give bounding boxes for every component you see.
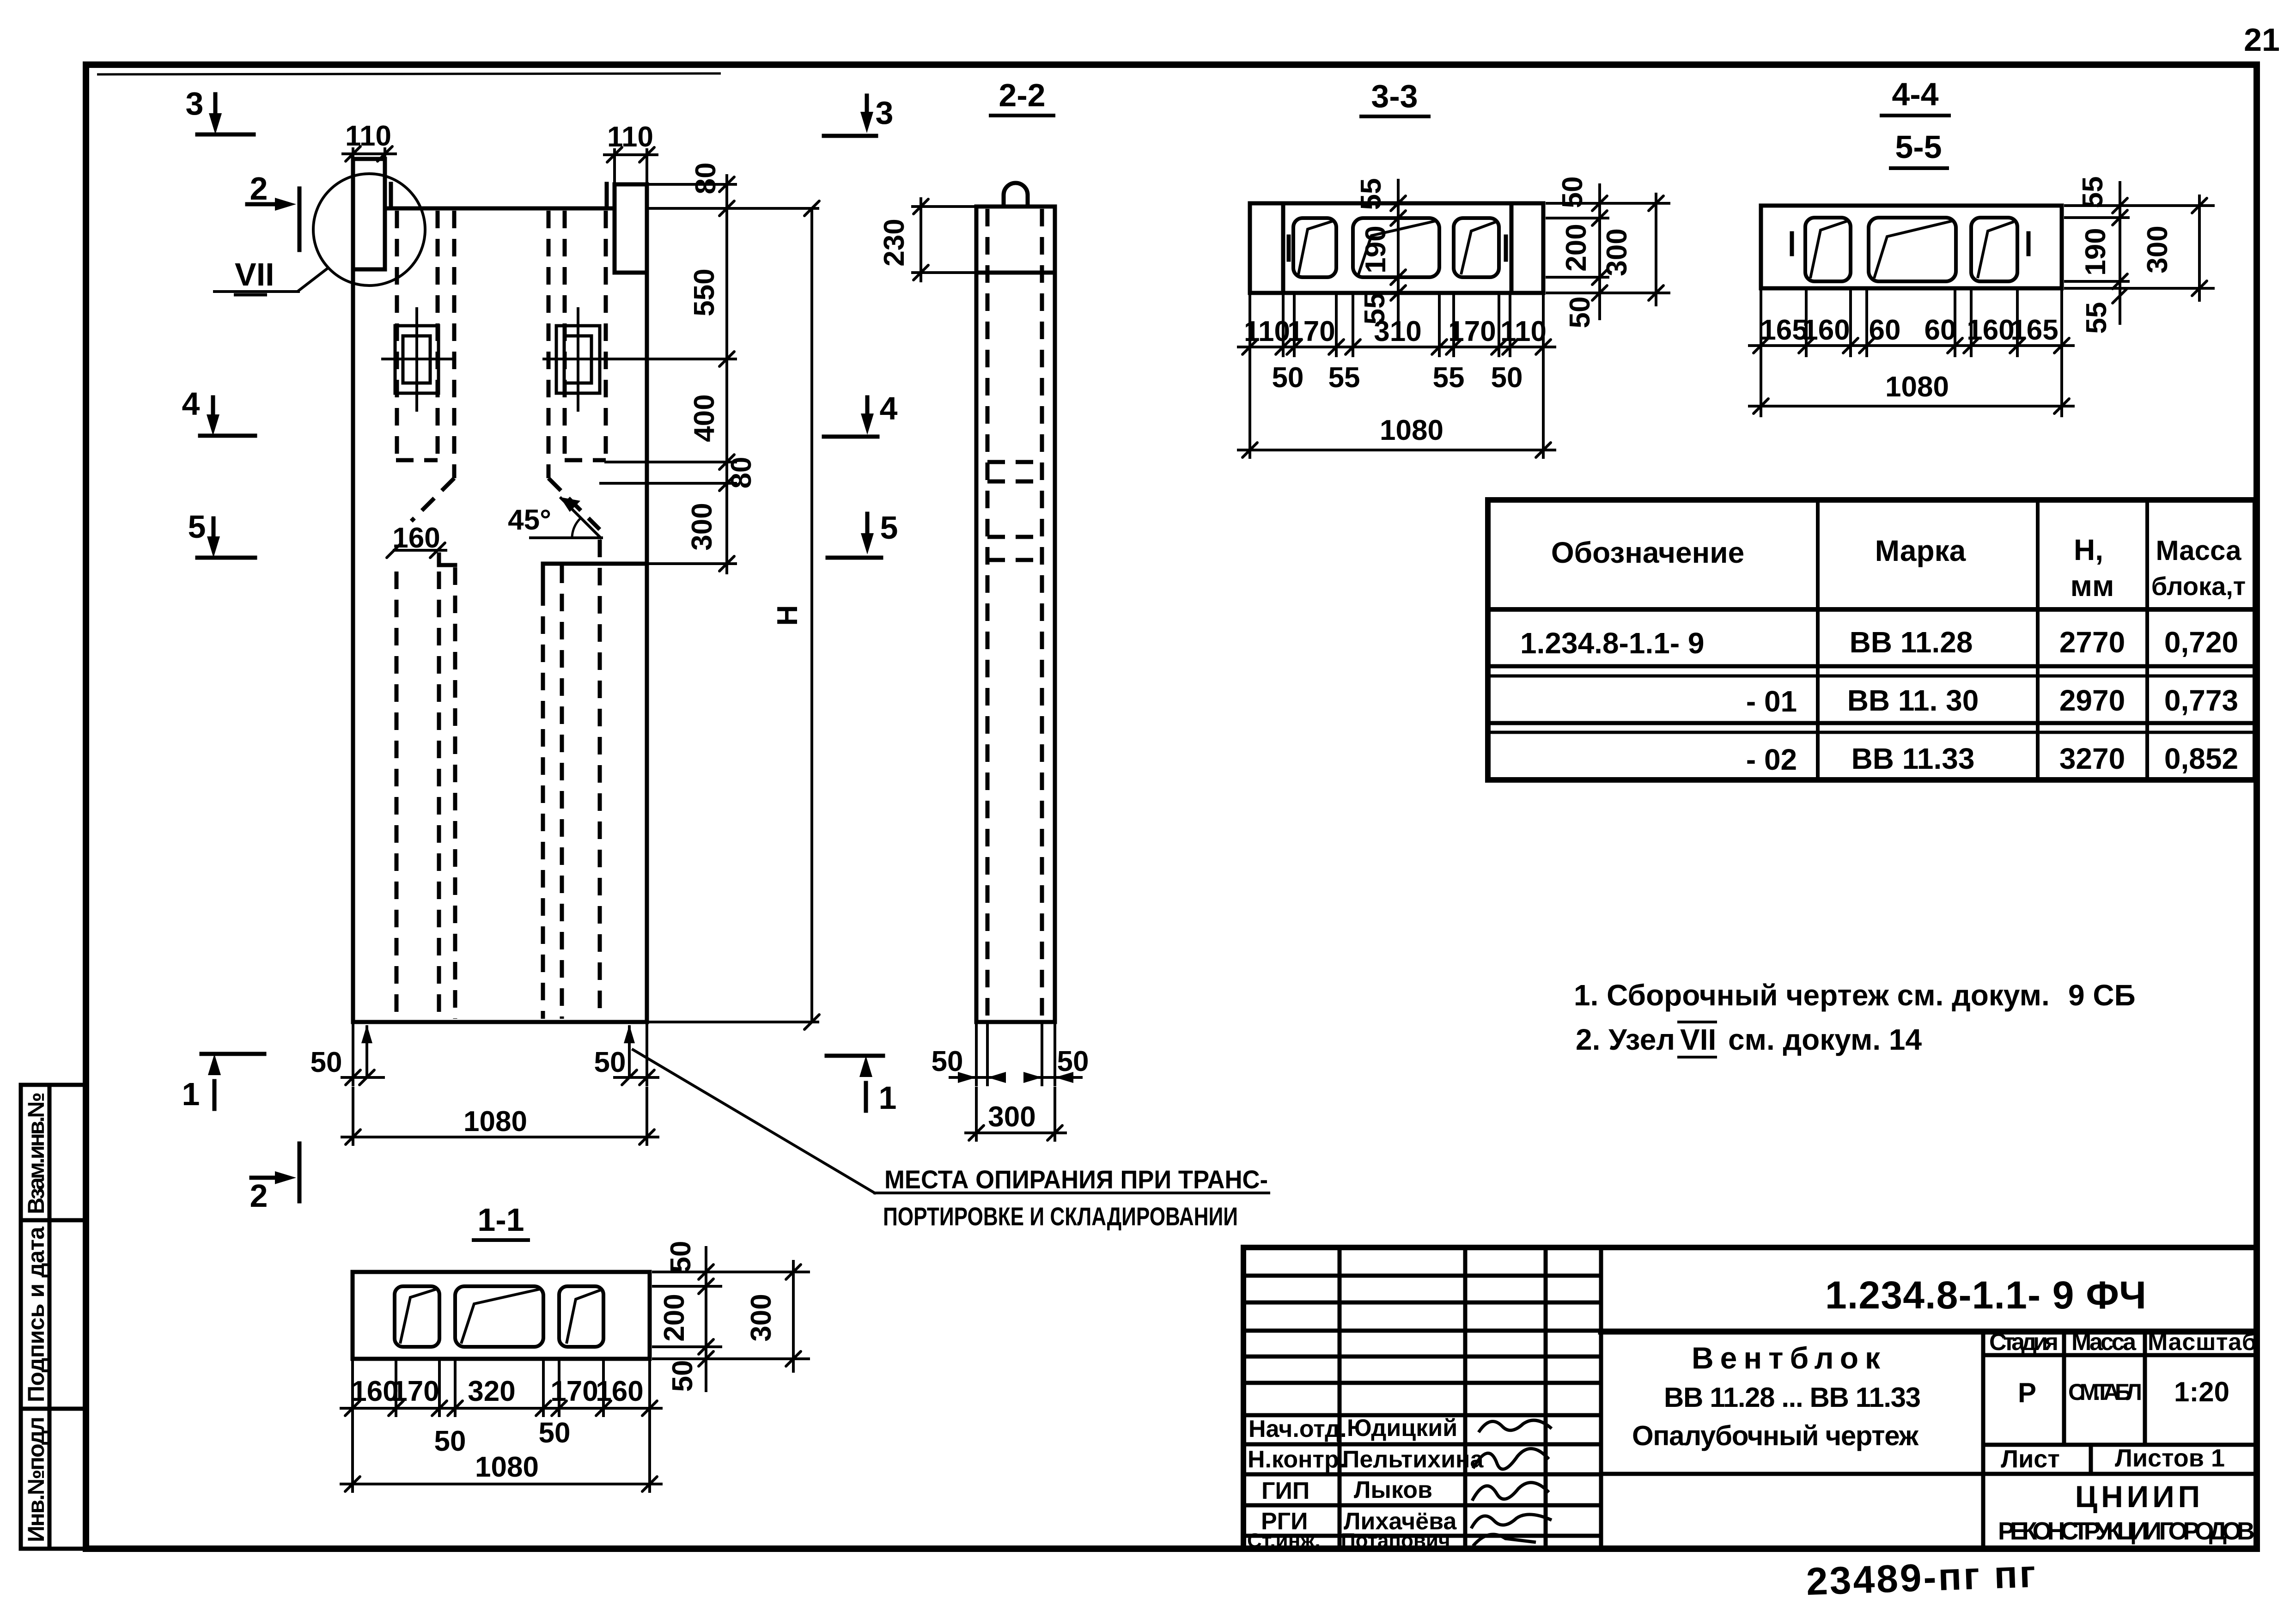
svg-text:Н.контр.: Н.контр. — [1248, 1446, 1346, 1473]
svg-text:50: 50 — [1272, 362, 1304, 394]
1-1 hole 2 — [455, 1286, 543, 1347]
svg-text:Нач.отд.: Нач.отд. — [1248, 1416, 1347, 1442]
svg-text:300: 300 — [745, 1294, 777, 1341]
hidden duct line left channel — [396, 211, 438, 460]
svg-text:300: 300 — [1601, 228, 1633, 276]
svg-text:55: 55 — [2081, 302, 2113, 334]
taper: left duct diagonal — [411, 478, 454, 521]
svg-text:80: 80 — [690, 163, 722, 195]
right taper step — [543, 564, 647, 586]
lifting loop anchor right — [544, 309, 612, 410]
note 2 — [1576, 1022, 1922, 1057]
lifting loop anchor left — [383, 309, 451, 410]
svg-text:165: 165 — [2010, 314, 2058, 346]
section marker 5 left — [188, 509, 255, 558]
hidden lines lower-left channel — [396, 572, 439, 1019]
svg-text:3: 3 — [186, 85, 204, 122]
dimension 160 taper — [387, 522, 446, 558]
svg-text:- 02: - 02 — [1746, 743, 1797, 776]
4-4 dimension 300 — [2065, 196, 2213, 300]
4-4 dimension row 165/160/60/60/160/165 — [1749, 314, 2073, 353]
svg-text:0,773: 0,773 — [2164, 684, 2238, 717]
svg-text:110: 110 — [345, 120, 391, 152]
svg-text:3270: 3270 — [2059, 742, 2125, 775]
svg-text:170: 170 — [1448, 316, 1496, 347]
hidden lines lower-right channel — [562, 540, 600, 1019]
svg-text:21: 21 — [2244, 22, 2280, 58]
svg-text:3: 3 — [876, 95, 894, 131]
svg-text:110: 110 — [607, 121, 653, 153]
row ГИП Лыков — [1261, 1477, 1549, 1504]
view label 1-1 — [472, 1202, 530, 1240]
taper: right duct diagonal — [548, 478, 600, 529]
svg-text:5: 5 — [188, 509, 206, 545]
1-1 sub labels 50/50 — [434, 1417, 571, 1457]
name cell Вентблок — [1601, 1341, 2257, 1474]
3-3 hole 2 — [1353, 218, 1439, 277]
svg-text:50: 50 — [665, 1241, 697, 1273]
svg-text:ВВ 11.33: ВВ 11.33 — [1851, 742, 1975, 775]
svg-text:1.234.8-1.1- 9 ФЧ: 1.234.8-1.1- 9 ФЧ — [1825, 1273, 2146, 1317]
svg-text:310: 310 — [1374, 316, 1421, 347]
svg-text:см. докум. 14: см. докум. 14 — [1728, 1023, 1922, 1056]
view label 5-5 — [1889, 129, 1949, 168]
section marker 3 right — [824, 95, 893, 136]
4-4 hole 1 — [1805, 218, 1851, 281]
svg-text:160: 160 — [596, 1375, 643, 1407]
svg-text:60: 60 — [1924, 314, 1956, 346]
svg-text:160: 160 — [392, 522, 440, 554]
2-2 dimension 50 left — [932, 1023, 1006, 1085]
left margin stamp boxes — [21, 1085, 86, 1549]
svg-text:Вентблок: Вентблок — [1692, 1341, 1887, 1375]
dimension 230 — [878, 199, 974, 281]
row РГИ Лихачёва — [1261, 1508, 1552, 1535]
1-1 right chain 50/200/50 — [653, 1241, 721, 1392]
svg-text:3-3: 3-3 — [1371, 78, 1418, 114]
1-1 dimension 300 — [653, 1261, 809, 1371]
3-3 dimension 55/190/55 — [1355, 178, 1406, 325]
4-4 dimension 1080 — [1749, 371, 2073, 414]
dimension 110 top-left — [343, 120, 396, 161]
svg-text:45°: 45° — [508, 504, 551, 536]
svg-text:1-1: 1-1 — [477, 1202, 524, 1238]
table header: Масса блока,т — [2151, 535, 2246, 601]
svg-text:Н,: Н, — [2074, 533, 2103, 566]
svg-text:Пельтихина: Пельтихина — [1342, 1446, 1484, 1473]
svg-text:400: 400 — [688, 394, 720, 442]
svg-text:Инв.№подл: Инв.№подл — [23, 1417, 49, 1542]
dimension 110 top-right — [604, 121, 657, 182]
45 degree angle note — [508, 497, 602, 538]
svg-text:50: 50 — [932, 1046, 963, 1077]
top-left tab (node VII tongue) — [353, 159, 391, 269]
svg-text:80: 80 — [725, 457, 757, 489]
section marker 1 bottom-left — [182, 1054, 264, 1112]
svg-text:ВВ 11.28 ... ВВ 11.33: ВВ 11.28 ... ВВ 11.33 — [1664, 1382, 1921, 1413]
svg-text:190: 190 — [1360, 225, 1392, 273]
1-1 dimension row 160/170/320/170/160 — [341, 1375, 661, 1416]
svg-text:1: 1 — [879, 1080, 897, 1116]
svg-text:Подпись и дата: Подпись и дата — [23, 1226, 49, 1402]
3-3 dimension row 110/170/310/170/110 — [1238, 316, 1555, 354]
svg-text:55: 55 — [2077, 176, 2109, 208]
svg-text:блока,т: блока,т — [2151, 572, 2246, 601]
svg-text:4: 4 — [182, 386, 200, 422]
svg-text:5: 5 — [880, 510, 898, 546]
svg-text:230: 230 — [878, 219, 910, 266]
svg-text:2770: 2770 — [2059, 626, 2125, 659]
svg-text:2. Узел: 2. Узел — [1576, 1023, 1675, 1056]
svg-text:160: 160 — [1967, 314, 2014, 346]
svg-text:1080: 1080 — [1885, 371, 1949, 403]
svg-text:50: 50 — [1057, 1046, 1089, 1077]
svg-text:Обозначение: Обозначение — [1551, 536, 1744, 569]
section marker 2 bottom — [250, 1144, 299, 1214]
3-3 bottom extension lines — [1250, 296, 1543, 457]
sheet row — [2001, 1444, 2225, 1474]
svg-text:50: 50 — [1564, 297, 1596, 328]
left taper step — [439, 554, 455, 565]
svg-text:0,720: 0,720 — [2164, 626, 2238, 659]
svg-text:170: 170 — [550, 1375, 598, 1407]
title block outer frame — [1243, 1247, 2257, 1549]
section marker 3 left — [186, 85, 254, 134]
svg-text:ВВ 11.28: ВВ 11.28 — [1850, 626, 1973, 659]
4-4 hole 2 — [1869, 218, 1956, 281]
2-2 dimension 50 right — [1023, 1023, 1089, 1085]
svg-text:Масса: Масса — [2156, 535, 2242, 566]
svg-text:ВВ 11. 30: ВВ 11. 30 — [1847, 684, 1979, 717]
svg-text:ЦНИИП: ЦНИИП — [2075, 1479, 2204, 1514]
svg-text:160: 160 — [1802, 314, 1850, 346]
svg-text:Юдицкий: Юдицкий — [1347, 1415, 1457, 1442]
svg-text:МЕСТА ОПИРАНИЯ ПРИ ТРАНС-: МЕСТА ОПИРАНИЯ ПРИ ТРАНС- — [884, 1165, 1268, 1194]
dimension 1080 bottom — [342, 1088, 658, 1144]
dimension 50 bottom-right — [594, 1025, 658, 1085]
svg-text:Марка: Марка — [1875, 534, 1966, 567]
3-3 hole 1 — [1293, 218, 1336, 277]
svg-text:Опалубочный чертеж: Опалубочный чертеж — [1632, 1420, 1919, 1451]
svg-text:50: 50 — [311, 1046, 342, 1078]
right dimension chain 80/550/400/80/300 — [601, 163, 818, 573]
section marker 1 bottom-right — [827, 1056, 896, 1116]
svg-text:- 01: - 01 — [1746, 685, 1797, 718]
top-right tab — [607, 184, 647, 273]
svg-text:5-5: 5-5 — [1895, 129, 1942, 165]
title block vertical dividers left part — [1340, 1247, 1601, 1549]
svg-text:300: 300 — [988, 1101, 1035, 1133]
4-4 right chain 55/190/55 — [2065, 176, 2128, 334]
svg-text:1080: 1080 — [1380, 414, 1443, 446]
svg-text:VII: VII — [1680, 1023, 1716, 1056]
svg-text:Масса: Масса — [2071, 1329, 2137, 1356]
svg-text:1080: 1080 — [475, 1451, 539, 1483]
svg-text:50: 50 — [667, 1360, 699, 1392]
stage/mass/scale table — [1983, 1329, 2257, 1549]
svg-text:200: 200 — [658, 1294, 690, 1341]
dimension 50 bottom-left — [311, 1025, 384, 1085]
svg-text:320: 320 — [468, 1375, 515, 1407]
svg-text:55: 55 — [1328, 362, 1360, 394]
svg-text:110: 110 — [1500, 316, 1547, 347]
3-3 dimension 1080 — [1238, 414, 1555, 457]
table row 2 — [1746, 684, 2238, 718]
svg-text:50: 50 — [594, 1046, 626, 1078]
svg-text:СМ.ТАБЛ: СМ.ТАБЛ — [2068, 1379, 2142, 1405]
svg-text:0,852: 0,852 — [2164, 742, 2238, 775]
section marker 5 right — [828, 510, 898, 558]
2-2 dimension 300 — [966, 1088, 1066, 1140]
3-3 block outline — [1250, 203, 1543, 293]
svg-text:170: 170 — [391, 1375, 439, 1407]
svg-text:190: 190 — [2080, 228, 2112, 275]
row Ст.инж. Потапович — [1247, 1529, 1536, 1552]
4-4 block outline — [1761, 206, 2062, 288]
title block revision rows — [1243, 1276, 1601, 1383]
svg-text:200: 200 — [1560, 224, 1592, 271]
svg-text:9 СБ: 9 СБ — [2068, 979, 2136, 1012]
svg-text:165: 165 — [1760, 314, 1808, 346]
section marker 4 right — [824, 390, 898, 437]
3-3 sub labels 50/55/55/50 — [1272, 362, 1523, 394]
leader to support note — [633, 1050, 1269, 1193]
svg-text:VII: VII — [235, 256, 274, 292]
svg-text:55: 55 — [1355, 178, 1387, 210]
table row 1 — [1520, 626, 2238, 660]
svg-text:1: 1 — [182, 1076, 200, 1112]
4-4 hole 3 — [1971, 218, 2017, 281]
svg-text:Ст.инж.: Ст.инж. — [1247, 1529, 1321, 1552]
svg-text:Потапович: Потапович — [1341, 1529, 1450, 1552]
svg-text:Р: Р — [2018, 1377, 2036, 1408]
3-3 right chain 50/200/50 — [1547, 176, 1608, 328]
svg-text:2: 2 — [250, 1178, 268, 1214]
svg-text:60: 60 — [1869, 314, 1901, 346]
svg-text:4: 4 — [880, 390, 898, 426]
svg-text:170: 170 — [1287, 316, 1335, 347]
svg-text:H: H — [772, 605, 804, 626]
svg-text:РЕКОНСТРУКЦИИ ГОРОДОВ: РЕКОНСТРУКЦИИ ГОРОДОВ — [1998, 1517, 2255, 1545]
svg-text:Листов 1: Листов 1 — [2115, 1444, 2225, 1472]
1-1 hole 3 — [559, 1286, 603, 1347]
svg-text:300: 300 — [686, 503, 718, 550]
support point arrow right — [624, 1025, 635, 1077]
table grid — [1488, 500, 2255, 780]
1-1 hole 1 — [395, 1286, 439, 1347]
svg-text:2: 2 — [250, 170, 268, 207]
svg-text:110: 110 — [1244, 316, 1290, 347]
svg-text:300: 300 — [2142, 225, 2174, 273]
svg-text:Масштаб: Масштаб — [2148, 1329, 2257, 1356]
3-3 dimension 300 — [1547, 194, 1669, 305]
3-3 hole 3 — [1454, 218, 1499, 277]
1-1 dimension 1080 — [341, 1451, 661, 1491]
table row 3 — [1746, 742, 2238, 776]
svg-text:2970: 2970 — [2059, 684, 2125, 717]
elevation block outline — [353, 159, 647, 1022]
1-1 block outline — [353, 1272, 650, 1359]
svg-text:55: 55 — [1433, 362, 1465, 394]
2-2 column outline — [976, 207, 1055, 1022]
section marker 2 left — [247, 170, 299, 250]
view label 3-3 — [1359, 78, 1431, 116]
svg-text:50: 50 — [539, 1417, 571, 1449]
2-2 hidden partitions — [987, 462, 1042, 560]
svg-text:Лист: Лист — [2001, 1445, 2060, 1473]
svg-text:550: 550 — [688, 268, 720, 316]
svg-text:ПОРТИРОВКЕ И СКЛАДИРОВАНИИ: ПОРТИРОВКЕ И СКЛАДИРОВАНИИ — [883, 1202, 1238, 1231]
support point arrow left — [361, 1025, 372, 1077]
table header: Н, мм — [2071, 533, 2114, 602]
svg-text:ГИП: ГИП — [1261, 1478, 1309, 1504]
row Н.контр. Пельтихина — [1248, 1446, 1549, 1473]
note text places of support — [883, 1165, 1268, 1231]
overall height dimension H — [650, 201, 819, 1029]
section marker 4 left — [182, 386, 255, 436]
svg-text:4-4: 4-4 — [1892, 76, 1938, 112]
svg-text:Стадия: Стадия — [1989, 1329, 2058, 1356]
svg-text:Взам.инв.№: Взам.инв.№ — [23, 1092, 49, 1214]
svg-text:50: 50 — [434, 1425, 466, 1457]
svg-text:1:20: 1:20 — [2174, 1376, 2229, 1407]
svg-text:1.234.8-1.1- 9: 1.234.8-1.1- 9 — [1520, 627, 1705, 660]
svg-text:23489-пг пг: 23489-пг пг — [1805, 1552, 2038, 1603]
2-2 hidden duct lines — [987, 209, 1042, 1020]
callout circle node VII — [214, 174, 425, 295]
hidden duct line right channel — [565, 211, 606, 460]
2-2 lifting loop — [1004, 183, 1028, 207]
svg-text:50: 50 — [1491, 362, 1523, 394]
title block signature rows — [1243, 1415, 1601, 1536]
svg-text:1080: 1080 — [463, 1106, 527, 1138]
4-4 bottom extension lines — [1761, 291, 2062, 416]
document number cell — [1601, 1273, 2257, 1332]
hidden lines lower-center channel — [455, 567, 543, 1019]
1-1 bottom extension lines — [353, 1362, 650, 1491]
hidden duct line center channel — [454, 211, 548, 478]
row Нач.отд. Юдицкий — [1248, 1415, 1552, 1442]
view label 2-2 — [989, 77, 1055, 116]
svg-text:2-2: 2-2 — [999, 77, 1045, 113]
view label 4-4 — [1880, 76, 1951, 116]
organization cell — [1998, 1479, 2255, 1545]
svg-text:1. Сборочный чертеж см. докум.: 1. Сборочный чертеж см. докум. — [1574, 979, 2050, 1012]
svg-text:Лыков: Лыков — [1354, 1477, 1432, 1503]
svg-text:мм: мм — [2071, 569, 2114, 602]
